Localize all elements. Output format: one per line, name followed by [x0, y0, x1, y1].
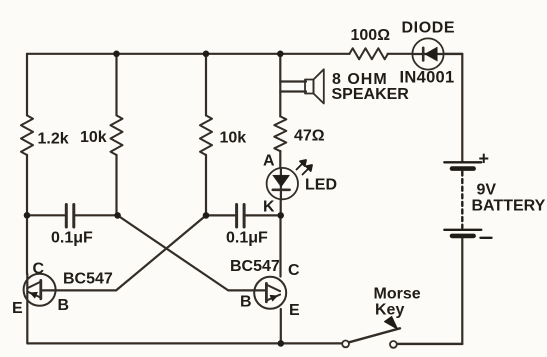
svg-text:9V: 9V [477, 182, 497, 199]
svg-text:0.1μF: 0.1μF [51, 230, 93, 247]
svg-text:IN4001: IN4001 [400, 69, 455, 87]
resistor R1 1.2k [21, 115, 33, 155]
LED arrows [297, 160, 313, 175]
wire left cap row left segment [27, 214, 65, 216]
battery BT1 9V [444, 162, 481, 236]
svg-text:Key: Key [375, 302, 404, 319]
LED D2 [267, 168, 298, 199]
switch S1 morse key [342, 317, 400, 348]
svg-text:DIODE: DIODE [402, 20, 456, 37]
capacitor C1 0.1uF [66, 205, 74, 228]
wire battery - down to bottom-right corner [398, 237, 463, 344]
svg-text:A: A [263, 153, 275, 170]
wire cross-couple C1 junction to Q2 base [118, 215, 265, 290]
wire LED junction down to Q2 collector [279, 215, 281, 276]
svg-text:LED: LED [305, 177, 337, 194]
svg-text:1.2k: 1.2k [38, 131, 69, 148]
wire left rail top [26, 54, 28, 116]
svg-text:E: E [12, 300, 23, 317]
wire 10k no.1 drop [115, 54, 117, 116]
capacitor C2 0.1uF [237, 205, 245, 228]
svg-text:10k: 10k [80, 129, 107, 146]
svg-text:C: C [33, 261, 45, 278]
wire top rail right of 100R [388, 53, 413, 55]
node top of R2 [113, 51, 120, 58]
wire 47R to LED anode [279, 151, 281, 168]
wire right rail to battery + [461, 54, 463, 162]
wire cross-couple C2 junction to Q1 base [43, 215, 207, 290]
wire morse key right terminal to rail [397, 343, 463, 345]
speaker LS1 [305, 69, 324, 103]
svg-text:+: + [479, 149, 490, 169]
transistor Q2 BC547 [254, 277, 286, 309]
svg-text:100Ω: 100Ω [351, 27, 391, 44]
svg-text:10k: 10k [220, 130, 247, 147]
wire speaker stub top [280, 80, 306, 82]
node junction dots [24, 51, 284, 347]
wire LED cathode to cap junction [280, 199, 282, 215]
wire bottom rail [28, 342, 343, 344]
node top of R3 [203, 51, 210, 58]
svg-text:BATTERY: BATTERY [472, 198, 546, 215]
wire 10k no.2 to cap junction [205, 155, 207, 216]
svg-text:B: B [240, 294, 252, 311]
wire right cap row right segment [246, 214, 281, 216]
diode D1 [412, 38, 462, 69]
node C1 right junction [114, 212, 121, 219]
wire left rail mid [26, 155, 28, 274]
resistor R2 10k [111, 115, 123, 155]
node speaker branch at top rail [277, 51, 284, 58]
svg-text:47Ω: 47Ω [294, 128, 325, 145]
svg-text:SPEAKER: SPEAKER [332, 86, 410, 103]
resistor R3 10k [200, 115, 212, 155]
node C2 left junction [203, 212, 210, 219]
wire left cap row right segment [76, 214, 118, 216]
svg-text:E: E [289, 302, 300, 319]
wire Q2 emitter to bottom rail [280, 309, 282, 343]
node left rail at C1 [24, 212, 31, 219]
svg-text:C: C [288, 262, 300, 279]
wire 10k no.1 to cap junction [115, 155, 117, 216]
node Q2 emitter at bottom rail [278, 340, 285, 347]
wire speaker branch drop [279, 54, 281, 117]
svg-text:BC547: BC547 [230, 258, 280, 275]
wire speaker stub bottom [280, 90, 306, 92]
wire top rail [27, 53, 350, 55]
svg-text:0.1μF: 0.1μF [226, 230, 268, 247]
svg-text:K: K [263, 199, 275, 216]
wire 10k no.2 drop [205, 54, 207, 116]
label battery minus [481, 237, 492, 239]
svg-text:BC547: BC547 [63, 271, 113, 288]
wire right cap row left segment [206, 214, 235, 216]
resistor R4 47R [274, 116, 286, 151]
wire left rail through transistor to bottom rail [26, 274, 28, 343]
resistor R5 100R horizontal [350, 48, 388, 59]
node LED branch at C2 [277, 212, 284, 219]
svg-text:B: B [58, 297, 70, 314]
wire diode to top-right corner [444, 53, 463, 55]
svg-text:Morse: Morse [374, 286, 421, 303]
transistor Q1 BC547 [24, 274, 56, 306]
